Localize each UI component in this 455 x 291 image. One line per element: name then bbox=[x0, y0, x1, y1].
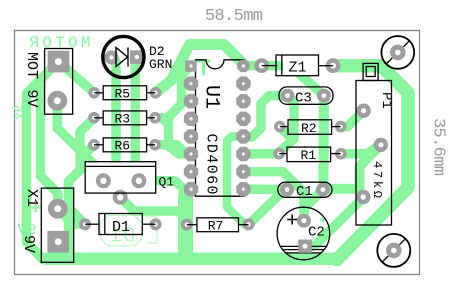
diode D1 outline bbox=[99, 214, 142, 235]
wire Q1 bottom pad to wide vertical bbox=[120, 197, 185, 218]
wire R5 right arch to U1 pin16 bbox=[156, 45, 244, 93]
svg-text:Q1: Q1 bbox=[159, 175, 175, 190]
svg-text:C3: C3 bbox=[295, 91, 312, 107]
wire Q1 right pad east to wide vertical bbox=[139, 181, 186, 191]
pad C2 minus (square) bbox=[298, 240, 311, 253]
white fills under silkscreen bbox=[283, 55, 319, 76]
wire U1 pin8 right to C1 left bbox=[243, 184, 287, 194]
zener Z1 outline bbox=[276, 55, 319, 76]
svg-text:P1: P1 bbox=[378, 92, 394, 109]
pads P1 bbox=[356, 104, 370, 118]
wire X1 pin2 stub to rail bbox=[53, 242, 63, 257]
wire R2 left joins node to R1 left bbox=[280, 127, 292, 139]
wire branch to D1 left pad bbox=[69, 208, 86, 225]
pads R5 bbox=[88, 87, 100, 99]
capacitor C2 outline bbox=[277, 207, 330, 260]
svg-text:C2: C2 bbox=[308, 225, 325, 241]
resistor R2 outline bbox=[288, 120, 332, 135]
wire P1 bottom to C2 minus bbox=[305, 198, 364, 246]
pad MOTOR-2 bbox=[47, 91, 67, 111]
wire D2 cathode to Q1 right pad bbox=[135, 57, 139, 181]
resistor R1 outline bbox=[287, 147, 331, 162]
pads R1 bbox=[273, 148, 285, 160]
wire R6 right to U1 pad bbox=[155, 145, 191, 154]
pads R2 bbox=[274, 121, 286, 133]
pads Q1 bbox=[96, 173, 111, 188]
wire C3 left to R1 left bbox=[279, 96, 294, 153]
wire C3 right down to C1 right bbox=[318, 96, 329, 190]
svg-text:U1: U1 bbox=[200, 85, 223, 109]
pad X1-1 bbox=[48, 199, 68, 219]
resistor R6 outline bbox=[103, 138, 146, 152]
wire stub T near pin1 bbox=[198, 61, 210, 74]
resistor R5 outline bbox=[103, 86, 146, 100]
wire V2 branch to X1 pin1 bbox=[41, 75, 58, 209]
wire MOTOR-1 to R5 left bbox=[58, 62, 94, 93]
capacitor C2 plus mark bbox=[287, 215, 297, 225]
svg-text:R5: R5 bbox=[115, 86, 131, 101]
IC U1 body with notch (drawn under pads) bbox=[196, 60, 245, 196]
wire R6 left merge bbox=[81, 145, 94, 158]
resistor R7 outline bbox=[197, 218, 239, 232]
svg-text:MOT: MOT bbox=[23, 52, 40, 79]
wire X1 pin1 to D1 left bbox=[58, 209, 85, 225]
svg-text:D1: D1 bbox=[112, 219, 130, 236]
pad U1 pin1 (square) bbox=[185, 60, 196, 71]
transistor Q1 outline bbox=[85, 162, 156, 193]
pad D2 cathode (square) bbox=[130, 50, 144, 64]
pads C1 bbox=[280, 183, 294, 197]
svg-text:GRN: GRN bbox=[149, 57, 172, 72]
capacitor C1 outline bbox=[278, 182, 332, 197]
pad C2 minus (over silk) bbox=[298, 240, 311, 253]
connector X1 outline bbox=[41, 188, 73, 262]
wire R3 right merge bbox=[155, 118, 169, 125]
pads U1 left column bbox=[184, 76, 198, 90]
svg-text:R3: R3 bbox=[115, 112, 131, 127]
pads U1 right column bbox=[237, 60, 249, 72]
svg-text:R2: R2 bbox=[301, 121, 317, 136]
wire U1 pin to C2 plus bbox=[243, 172, 304, 221]
wire U1 pin1 to pin6 area bbox=[169, 66, 192, 154]
mounting hole bottom-right bbox=[377, 234, 410, 267]
svg-text:R6: R6 bbox=[115, 139, 131, 154]
svg-text:35.6mm: 35.6mm bbox=[429, 118, 448, 176]
pads R7 bbox=[181, 219, 193, 231]
potentiometer P1 outline bbox=[356, 81, 392, 226]
pad MOTOR-1 (square) bbox=[48, 51, 70, 73]
pads D1 bbox=[79, 218, 91, 230]
svg-text:X1: X1 bbox=[23, 189, 40, 207]
svg-text:MOTOR: MOTOR bbox=[29, 34, 90, 52]
wire D2 anode to Q1 bottom pad bbox=[112, 58, 121, 198]
svg-text:58.5mm: 58.5mm bbox=[205, 7, 263, 26]
wire bottom ground rail bbox=[47, 252, 337, 265]
pad C2 plus bbox=[297, 214, 311, 228]
wire R1 right to P1 middle bbox=[341, 144, 381, 153]
pads C3 bbox=[281, 89, 295, 103]
svg-text:R1: R1 bbox=[301, 148, 317, 163]
pads R3 bbox=[88, 112, 100, 124]
wire MOTOR-1 to V1 vertical to bottom rail bbox=[27, 68, 53, 260]
wire R2 right to P1 top bbox=[341, 111, 364, 127]
board outline bbox=[15, 31, 420, 275]
wire U1 pad to R1 left bbox=[243, 149, 279, 159]
wire wide vertical to rail bbox=[178, 196, 193, 255]
pad X1-2 (square) bbox=[47, 231, 69, 253]
pad mounting hole top-right bbox=[390, 45, 406, 61]
pads Z1 bbox=[254, 58, 269, 73]
svg-text:9V: 9V bbox=[20, 235, 37, 253]
wire C1 right to C2 plus bbox=[304, 190, 323, 221]
wire pin16 under Z1 to C3 right bbox=[243, 66, 324, 96]
capacitor C3 outline bbox=[279, 87, 333, 104]
svg-text:Z1: Z1 bbox=[289, 60, 307, 77]
wire Z1 right to P1 side to rail bbox=[333, 66, 408, 260]
pad D2 anode bbox=[105, 51, 119, 65]
bottom copper plus near C2 bbox=[320, 216, 326, 222]
pad mounting hole bottom-right bbox=[386, 243, 402, 259]
pads R6 bbox=[88, 139, 100, 151]
resistor R3 outline bbox=[103, 111, 146, 125]
wire hook U1 pin to R7 right bbox=[227, 136, 249, 224]
wire R7 right diag merge bbox=[249, 182, 293, 225]
wire MOTOR-2 to Q1 left pad bbox=[57, 101, 103, 181]
wire C1 right to P1 middle bbox=[323, 144, 381, 189]
LED D2 circle bbox=[103, 36, 144, 77]
svg-text:C1: C1 bbox=[296, 184, 313, 200]
wire C3 left to U1 pin bbox=[243, 96, 287, 137]
svg-text:R7: R7 bbox=[208, 219, 224, 234]
mounting hole top-right bbox=[381, 36, 414, 69]
wire R3 left to D1 left bbox=[69, 118, 95, 260]
connector MOTOR outline bbox=[45, 49, 73, 115]
svg-text:9V: 9V bbox=[23, 90, 40, 108]
wire U1 pin8 to wide vertical bbox=[186, 189, 192, 195]
LED D2 diode symbol bbox=[116, 48, 128, 67]
drill holes of all pads bbox=[54, 50, 401, 254]
bottom copper plus near X1 bbox=[31, 203, 41, 213]
ghost outline of D1 package (bottom layer) bbox=[100, 216, 157, 246]
